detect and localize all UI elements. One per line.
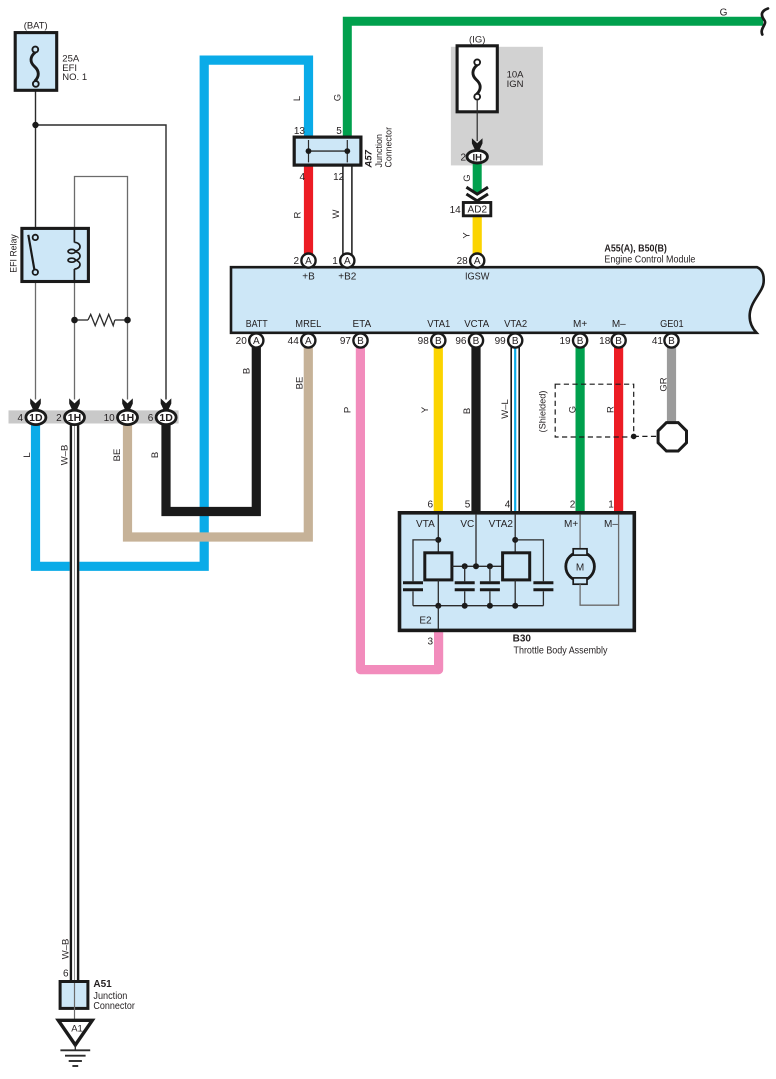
label (BAT) (24, 21, 48, 32)
wire label G (IG drop) (462, 174, 473, 181)
wire label BE (left) (112, 449, 123, 462)
wire branch from relay coil top right then down to connector 1H pin10 (75, 177, 128, 321)
TB pin number 2 (570, 500, 576, 511)
TB internal: VTA2 drop wire (514, 515, 516, 553)
svg-text:GR: GR (659, 377, 670, 391)
label ETA (352, 319, 371, 330)
svg-text:98: 98 (418, 336, 430, 347)
pin number 4 (A57) (299, 172, 305, 183)
svg-text:6: 6 (148, 413, 154, 424)
resistor between relay coil branch and BE branch (75, 314, 128, 325)
svg-text:BE: BE (294, 377, 305, 390)
pin number 97 (340, 336, 352, 347)
svg-text:A: A (253, 336, 260, 347)
svg-text:MREL: MREL (295, 319, 321, 330)
TB internal: VC drop wire (475, 515, 477, 567)
TB internal: node dots on middle rail (462, 563, 493, 569)
label +B2 (338, 272, 357, 283)
wire label B (VCTA) (462, 408, 473, 414)
svg-text:E2: E2 (419, 615, 432, 626)
pin number 1 (+B2) (332, 256, 338, 267)
label VTA (416, 519, 435, 530)
svg-text:B: B (150, 452, 161, 458)
svg-text:A: A (305, 336, 312, 347)
svg-text:A: A (305, 256, 312, 267)
label A57 Junction Connector (rotated) (364, 127, 395, 169)
svg-text:EFI Relay: EFI Relay (9, 234, 20, 273)
pin letter A (MREL) (305, 336, 312, 347)
TB internal: capacitor C3 (480, 566, 500, 605)
label A1 (ground) (71, 1024, 83, 1035)
ECM pin circle 44 A (MREL) (301, 333, 315, 347)
wire from 1H pin10 node down to connector (127, 320, 129, 400)
svg-text:B: B (435, 336, 442, 347)
fuse IGN 10A (IG) box (457, 46, 497, 141)
svg-text:W–L: W–L (500, 399, 511, 419)
svg-text:IGSW: IGSW (465, 272, 490, 283)
label A55(A), B50(B) (604, 243, 667, 254)
svg-text:12: 12 (333, 172, 345, 183)
svg-text:97: 97 (340, 336, 352, 347)
shield ground octagon (658, 423, 686, 451)
wire from relay switch bottom down to connector 1D pin4 (35, 275, 37, 400)
wire label BE (MREL) (294, 377, 305, 390)
label E2 (419, 615, 432, 626)
label VC (460, 519, 474, 530)
svg-text:18: 18 (599, 336, 611, 347)
svg-text:20: 20 (236, 336, 248, 347)
label BATT (246, 319, 268, 330)
svg-text:Y: Y (462, 232, 473, 239)
TB internal: sensor element square 2 (VTA2) (503, 553, 530, 580)
wire label W-B (left) (59, 445, 70, 466)
connector label 1H pin10 (121, 412, 134, 424)
label M- (TB) (604, 519, 618, 530)
svg-text:3: 3 (427, 636, 433, 647)
ECM pin circle 2 A (+B) (301, 254, 315, 268)
svg-text:P: P (342, 407, 353, 413)
TB pin number 4 (505, 500, 511, 511)
svg-text:99: 99 (495, 336, 507, 347)
svg-text:4: 4 (17, 413, 23, 424)
connector oval 1H pin2 (65, 410, 85, 424)
ECM pin circle 41 B (GE01) (664, 333, 678, 347)
node junction dot on fuse wire (32, 122, 38, 128)
svg-text:1D: 1D (159, 412, 173, 424)
svg-text:NO. 1: NO. 1 (62, 72, 87, 83)
fuse EFI NO.1 25A (BAT) box (15, 33, 57, 91)
svg-text:IGN: IGN (507, 79, 524, 90)
label +B (302, 272, 315, 283)
ground triangle A1 (58, 1020, 92, 1045)
svg-text:W: W (331, 209, 342, 218)
boxed label AD2 pin14 (463, 203, 491, 216)
svg-text:BE: BE (112, 449, 123, 462)
svg-text:G: G (567, 406, 578, 413)
svg-text:Connector: Connector (93, 1001, 135, 1012)
label 25A EFI NO. 1 (62, 54, 87, 84)
pin number 6 (A51) (63, 968, 69, 979)
label A51 Junction Connector (93, 979, 135, 1012)
TB internal: capacitor C2 (455, 566, 475, 605)
off-page break squiggle on green wire G (762, 9, 768, 35)
TB pin number 3 (427, 636, 433, 647)
svg-text:R: R (606, 406, 617, 413)
wire B (black) VCTA from ECM pin96 to throttle body pin5 (471, 346, 480, 514)
ECM pin circle 1 A (+B2) (340, 254, 354, 268)
wire label P (342, 407, 353, 413)
svg-text:B: B (577, 336, 584, 347)
svg-text:VTA2: VTA2 (489, 519, 514, 530)
svg-text:10: 10 (104, 413, 116, 424)
wire BE (beige) MREL from ECM pin44 to connector 1H pin10 (128, 346, 309, 537)
svg-text:1H: 1H (121, 412, 134, 424)
TB internal: M- return loop (580, 515, 619, 606)
svg-text:13: 13 (294, 126, 306, 137)
node dot resistor left (71, 317, 78, 324)
svg-text:2: 2 (56, 413, 62, 424)
svg-text:A: A (344, 256, 351, 267)
svg-text:1: 1 (332, 256, 338, 267)
TB pin number 6 (427, 500, 433, 511)
TB internal: branch right to capacitor C4 (515, 540, 543, 581)
pin letter B (M+) (577, 336, 584, 347)
label VCTA (464, 319, 489, 330)
pin letter B (M-) (615, 336, 622, 347)
svg-text:Engine Control Module: Engine Control Module (604, 254, 695, 265)
throttle body assembly B30 box (400, 513, 635, 631)
pin letter B (ETA) (357, 336, 364, 347)
wire Y (yellow) from AD2 to ECM pin IGSW (473, 216, 482, 255)
TB internal: node dot on VTA2 drop (512, 537, 518, 543)
TB internal: sensor element square 1 (VTA) (425, 553, 452, 580)
pin letter B (VTA1) (435, 336, 442, 347)
wire label B (left) (150, 452, 161, 458)
wire label B (BATT) (241, 368, 252, 374)
ECM pin circle 96 B (VCTA) (469, 333, 483, 347)
svg-text:A55(A), B50(B): A55(A), B50(B) (604, 243, 667, 254)
svg-text:(Shielded): (Shielded) (538, 391, 549, 433)
connector label 1D pin6 (159, 412, 173, 424)
svg-text:VTA1: VTA1 (427, 319, 450, 330)
svg-text:(IG): (IG) (469, 35, 485, 46)
TB internal: capacitor C1 (403, 583, 423, 606)
label M- (ECM) (612, 319, 626, 330)
ECM pin circle 19 B (M+) (573, 333, 587, 347)
pin number 19 (559, 336, 571, 347)
svg-text:VTA2: VTA2 (504, 319, 527, 330)
wire R (red) from A57 pin4 to ECM pin +B (304, 164, 313, 255)
svg-text:M–: M– (612, 319, 626, 330)
label B30 (513, 634, 532, 645)
arrowhead into connector 1D pin6 (161, 398, 172, 410)
svg-text:Throttle Body Assembly: Throttle Body Assembly (514, 646, 608, 657)
pin number 13 (294, 126, 306, 137)
pin letter A (+B2) (344, 256, 351, 267)
svg-text:A1: A1 (71, 1024, 83, 1035)
label EFI Relay (rotated) (9, 234, 20, 273)
TB internal: M+ lead (579, 515, 581, 549)
wire label Y (VTA1) (420, 406, 431, 413)
label IGSW (465, 272, 490, 283)
dashed shield drain link to octagon (634, 435, 659, 437)
pin number 96 (455, 336, 467, 347)
svg-text:Connector: Connector (384, 127, 395, 168)
wire label G (A57 top) (333, 94, 344, 101)
shielded dashed box around G and R wires (555, 384, 634, 437)
motor M in throttle body (566, 549, 595, 584)
pin number 2 (IH) (460, 152, 466, 163)
arrowhead into connector 1H pin10 (122, 398, 133, 410)
wire W-L (white-blue) VTA2 from ECM pin99 to throttle body pin4 (511, 346, 519, 514)
label Engine Control Module (604, 254, 695, 265)
wire P (pink) ETA from ECM pin97 to throttle body pin3 E2 (360, 346, 438, 670)
junction connector A51 box (60, 982, 88, 1021)
svg-text:5: 5 (336, 126, 342, 137)
svg-text:44: 44 (288, 336, 300, 347)
pin number 18 (599, 336, 611, 347)
TB internal: square2 bottom lead (514, 580, 516, 606)
wire label R (M-) (606, 406, 617, 413)
svg-text:IH: IH (472, 153, 482, 164)
label Throttle Body Assembly (514, 646, 608, 657)
wire label GR (659, 377, 670, 391)
label 10A IGN (507, 70, 525, 90)
svg-text:2: 2 (293, 256, 299, 267)
svg-text:(BAT): (BAT) (24, 21, 48, 32)
connector label 1D pin4 (29, 412, 43, 424)
TB internal: node dot on VTA drop (435, 537, 441, 543)
label (IG) (469, 35, 485, 46)
wire G (green) M+ from ECM pin19 to throttle body pin2 (575, 346, 584, 514)
bar pin number 2 (56, 413, 62, 424)
wire GR (gray) GE01 from ECM pin41 to shield octagon (667, 346, 676, 424)
svg-text:2: 2 (460, 152, 466, 163)
svg-text:G: G (720, 8, 728, 19)
arrowhead into connector IH (472, 138, 483, 150)
bar pin number 4 (17, 413, 23, 424)
node dot on shield box corner (631, 434, 637, 440)
pin number 5 (336, 126, 342, 137)
TB pin number 1 (608, 500, 614, 511)
TB internal: bus node dots (435, 603, 518, 609)
pin number 98 (418, 336, 430, 347)
svg-text:1D: 1D (29, 412, 43, 424)
wire label W-L (500, 399, 511, 419)
pin letter B (GE01) (668, 336, 675, 347)
bar pin number 10 (104, 413, 116, 424)
pin number 14 (AD2) (450, 205, 462, 216)
wire label W-B (bottom) (60, 939, 71, 960)
TB internal: E2 drop to pin3 (437, 606, 439, 629)
arrowhead into connector 1D pin4 (30, 398, 41, 410)
connector oval 1D pin4 (26, 410, 46, 424)
node dot resistor right (124, 317, 131, 324)
wire G (green) from A57 pin5 to top-right off-page (347, 21, 763, 139)
svg-text:G: G (333, 94, 344, 101)
connector label IH (472, 153, 482, 164)
svg-text:B: B (241, 368, 252, 374)
wire G (green) from connector IH to arrow AD2 (473, 163, 482, 193)
label VTA2 (TB) (489, 519, 514, 530)
svg-text:A57: A57 (364, 149, 375, 168)
bar pin number 6 (148, 413, 154, 424)
pin number 12 (333, 172, 345, 183)
svg-text:B: B (668, 336, 675, 347)
label VTA2 (504, 319, 527, 330)
ECM pin circle 99 B (VTA2) (508, 333, 522, 347)
svg-text:R: R (293, 211, 304, 218)
svg-text:GE01: GE01 (660, 319, 684, 330)
svg-text:19: 19 (559, 336, 571, 347)
svg-text:6: 6 (427, 500, 433, 511)
svg-text:2: 2 (570, 500, 576, 511)
wire B (black) BATT from ECM pin20 to connector 1D pin6 (166, 346, 256, 512)
ECM pin circle 98 B (VTA1) (431, 333, 445, 347)
svg-text:L: L (22, 452, 33, 457)
wire label R (293, 211, 304, 218)
label AD2 (468, 205, 488, 216)
svg-text:B: B (473, 336, 480, 347)
pin letter B (VCTA) (473, 336, 480, 347)
pin letter A (+B) (305, 256, 312, 267)
svg-text:6: 6 (63, 968, 69, 979)
wire from relay coil bottom down to connector 1H pin2 (74, 281, 76, 400)
label (Shielded) rotated (538, 391, 549, 433)
ECM box A55(A) B50(B) Engine Control Module (231, 267, 764, 333)
svg-text:AD2: AD2 (468, 205, 488, 216)
wire label L (left) (22, 452, 33, 457)
pin number 44 (288, 336, 300, 347)
svg-text:VTA: VTA (416, 519, 435, 530)
ECM pin circle 97 B (ETA) (353, 333, 367, 347)
svg-text:M: M (576, 562, 584, 573)
TB pin number 5 (465, 500, 471, 511)
pin number 41 (652, 336, 664, 347)
svg-text:VC: VC (460, 519, 474, 530)
svg-text:+B: +B (302, 272, 315, 283)
TB internal: branch left to capacitor C1 (413, 540, 438, 581)
svg-text:B: B (462, 408, 473, 414)
svg-text:BATT: BATT (246, 319, 268, 330)
pin number 2 (+B) (293, 256, 299, 267)
svg-text:1: 1 (608, 500, 614, 511)
label M+ (TB) (564, 519, 578, 530)
connector oval IH pin2 (467, 150, 487, 163)
svg-text:L: L (292, 96, 303, 101)
svg-text:W–B: W–B (59, 445, 70, 466)
svg-text:M–: M– (604, 519, 618, 530)
svg-text:Y: Y (420, 406, 431, 413)
svg-text:1H: 1H (68, 412, 81, 424)
pin number 28 (IGSW) (457, 256, 469, 267)
wire R (red) M- from ECM pin18 to throttle body pin1 (614, 346, 623, 514)
gray instrument-panel bar behind connectors 1D/1H (9, 410, 179, 423)
pin letter A (IGSW) (474, 256, 481, 267)
label MREL (295, 319, 321, 330)
svg-text:G: G (462, 174, 473, 181)
svg-text:B: B (512, 336, 519, 347)
connector oval 1D pin6 (156, 410, 176, 424)
svg-text:B: B (357, 336, 364, 347)
TB internal: capacitor C4 (533, 583, 553, 606)
label VTA1 (427, 319, 450, 330)
pin number 99 (495, 336, 507, 347)
wire L (blue) from connector 1D pin4 up to junction connector A57 pin13 (36, 60, 309, 566)
svg-text:ETA: ETA (352, 319, 371, 330)
wire label L (top) (292, 96, 303, 101)
svg-text:W–B: W–B (60, 939, 71, 960)
label M in motor (576, 562, 584, 573)
junction connector A57 box (294, 137, 361, 165)
connector oval 1H pin10 (118, 410, 138, 424)
svg-text:5: 5 (465, 500, 471, 511)
ECM pin circle 18 B (M-) (612, 333, 626, 347)
relay EFI Relay box (22, 228, 89, 281)
gray panel behind (IG) fuse block (451, 47, 543, 166)
TB internal: middle rail between squares (452, 565, 503, 567)
wire label G (M+) (567, 406, 578, 413)
wire W-B (white-black) from connector 1H pin2 down to junction connector A51 (71, 424, 78, 982)
label GE01 (660, 319, 684, 330)
ECM pin circle 20 A (BATT) (249, 333, 263, 347)
svg-text:B30: B30 (513, 634, 532, 645)
wire label G (top right) (720, 8, 728, 19)
TB internal: VTA drop wire (437, 515, 439, 553)
label M+ (ECM) (573, 319, 587, 330)
pin letter B (VTA2) (512, 336, 519, 347)
svg-text:M+: M+ (573, 319, 587, 330)
ECM pin circle 28 A (IGSW) (470, 254, 484, 268)
TB internal: square1 bottom lead (437, 580, 439, 606)
wire W (white) from A57 pin12 to ECM pin +B2 (343, 164, 352, 255)
pin letter A (BATT) (253, 336, 260, 347)
svg-text:A: A (474, 256, 481, 267)
svg-text:B: B (615, 336, 622, 347)
connector label 1H pin2 (68, 412, 81, 424)
wire label Y (IG drop) (462, 232, 473, 239)
wire label W (331, 209, 342, 218)
svg-text:96: 96 (455, 336, 467, 347)
svg-text:4: 4 (505, 500, 511, 511)
svg-text:+B2: +B2 (338, 272, 357, 283)
svg-text:A51: A51 (93, 979, 112, 990)
svg-text:4: 4 (299, 172, 305, 183)
svg-text:28: 28 (457, 256, 469, 267)
svg-text:M+: M+ (564, 519, 578, 530)
pin number 20 (236, 336, 248, 347)
svg-text:14: 14 (450, 205, 462, 216)
arrowhead into connector 1H pin2 (69, 398, 80, 410)
TB internal: ground bus rail (413, 605, 543, 607)
wire from fuse EFI NO.1 down to EFI relay switch (35, 90, 37, 235)
wire branch from node at (35.5,125) right then down to connector 1D pin6 (36, 125, 167, 400)
ground symbol bars (60, 1045, 90, 1066)
double chevron arrow from G wire into AD2 (466, 187, 488, 201)
svg-text:41: 41 (652, 336, 664, 347)
wire Y (yellow) VTA1 from ECM pin98 to throttle body pin6 (434, 346, 443, 514)
svg-text:VCTA: VCTA (464, 319, 489, 330)
